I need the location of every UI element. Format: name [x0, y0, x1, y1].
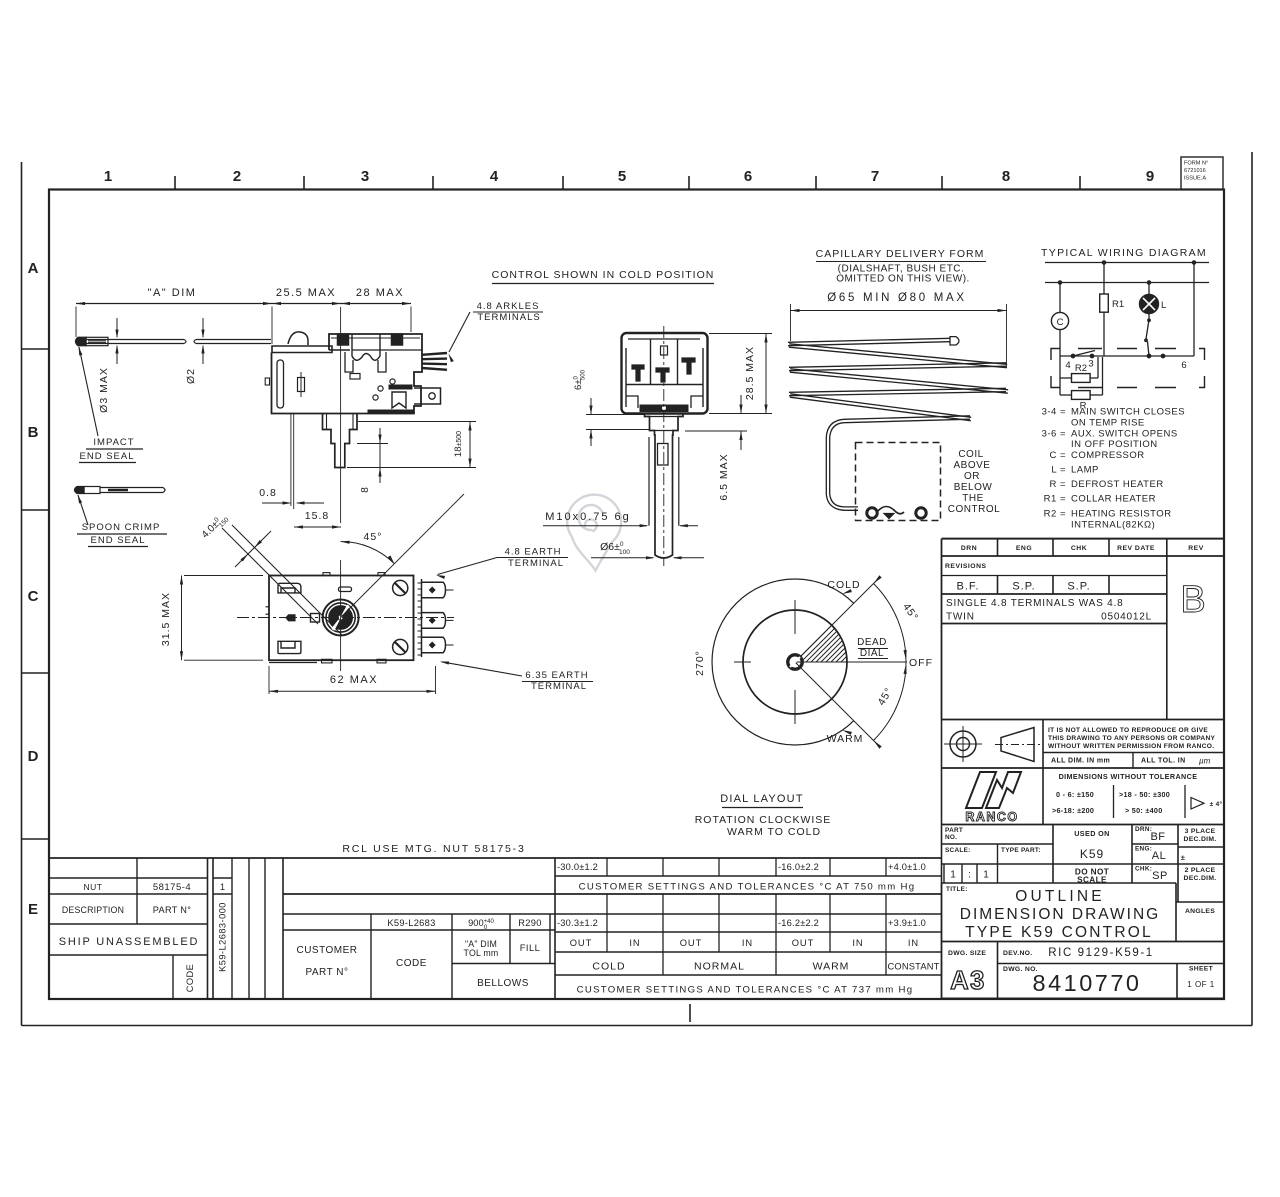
dim 8 — [350, 428, 388, 493]
svg-text:R =: R = — [1049, 479, 1066, 490]
svg-text:USED ON: USED ON — [1074, 829, 1110, 838]
dim 15.8 — [294, 510, 341, 529]
svg-text:ON TEMP RISE: ON TEMP RISE — [1071, 418, 1145, 429]
control boundary (dashed) — [1051, 349, 1205, 388]
svg-text:K59-L2683: K59-L2683 — [387, 918, 435, 928]
svg-text:3: 3 — [1088, 359, 1093, 370]
svg-text:NUT: NUT — [84, 882, 103, 892]
front view: small square — [311, 614, 320, 623]
svg-text:REV DATE: REV DATE — [1117, 545, 1155, 552]
sheet outer border — [22, 152, 1253, 1026]
svg-text:COMPRESSOR: COMPRESSOR — [1071, 450, 1145, 461]
svg-text:3-6 =: 3-6 = — [1042, 429, 1066, 440]
svg-text:TYPE PART:: TYPE PART: — [1001, 847, 1041, 854]
svg-text:IMPACT: IMPACT — [93, 437, 134, 448]
svg-text:END SEAL: END SEAL — [80, 451, 135, 462]
svg-text:0504012L: 0504012L — [1101, 612, 1152, 623]
svg-text:R1: R1 — [1112, 299, 1124, 310]
projection symbol block — [942, 720, 1225, 769]
svg-text:L: L — [1161, 300, 1166, 311]
svg-text:> 50: ±400: > 50: ±400 — [1125, 806, 1163, 815]
RANCO logo — [942, 768, 1044, 825]
svg-text:SHIP UNASSEMBLED: SHIP UNASSEMBLED — [59, 936, 199, 948]
capillary delivery form heading — [816, 248, 986, 285]
svg-text:DESCRIPTION: DESCRIPTION — [62, 905, 124, 915]
note COIL ABOVE OR BELOW THE CONTROL — [948, 449, 1000, 515]
svg-text:IN: IN — [852, 938, 863, 948]
svg-text:>6-18: ±200: >6-18: ±200 — [1052, 806, 1094, 815]
svg-text:DEC.DIM.: DEC.DIM. — [1184, 875, 1217, 882]
svg-text:8: 8 — [1002, 168, 1010, 185]
svg-text:OR: OR — [964, 471, 980, 482]
svg-text:TYPE K59 CONTROL: TYPE K59 CONTROL — [965, 924, 1153, 941]
control outline (dashed) — [856, 443, 941, 521]
side view: control body — [265, 332, 422, 414]
side view centerline — [340, 307, 342, 523]
svg-text:CUSTOMER SETTINGS AND TOLERANC: CUSTOMER SETTINGS AND TOLERANCES °C AT 7… — [579, 882, 916, 893]
dim dia3 MAX — [98, 318, 119, 413]
svg-text:± 4°: ± 4° — [1210, 800, 1223, 808]
dim 0.8 — [259, 487, 324, 505]
svg-text:K59: K59 — [1080, 847, 1104, 861]
svg-text:IN: IN — [908, 938, 919, 948]
svg-text:OFF: OFF — [909, 657, 933, 669]
svg-text:µm: µm — [1199, 757, 1211, 766]
middle view: spindle/shaft — [645, 414, 684, 559]
dial labels — [694, 579, 933, 745]
svg-text:+3.9±1.0: +3.9±1.0 — [888, 918, 926, 928]
svg-text:6: 6 — [1181, 360, 1186, 371]
svg-text:R290: R290 — [518, 918, 541, 928]
dim 6.5 MAX — [685, 395, 747, 501]
svg-text:IN OFF POSITION: IN OFF POSITION — [1071, 439, 1158, 450]
svg-text:28 MAX: 28 MAX — [356, 287, 404, 299]
svg-text:1 OF 1: 1 OF 1 — [1187, 980, 1215, 989]
svg-text:2: 2 — [233, 168, 241, 185]
watermark logo — [567, 495, 621, 571]
svg-text:ALL DIM. IN mm: ALL DIM. IN mm — [1051, 758, 1110, 765]
svg-text:Ø3 MAX: Ø3 MAX — [98, 367, 110, 413]
switch: aux contact — [1145, 314, 1151, 357]
svg-text:OUT: OUT — [792, 938, 815, 948]
sheet inner frame — [49, 190, 1224, 1000]
wire: second supply bus — [1045, 281, 1209, 285]
svg-text:FILL: FILL — [520, 943, 541, 953]
svg-text:SINGLE 4.8 TERMINALS WAS 4.8: SINGLE 4.8 TERMINALS WAS 4.8 — [946, 598, 1123, 609]
svg-text:6: 6 — [744, 168, 752, 185]
svg-text:"A" DIM: "A" DIM — [148, 287, 197, 299]
svg-text:-16.0±2.2: -16.0±2.2 — [778, 862, 819, 872]
svg-text:IN: IN — [629, 938, 640, 948]
svg-text:SP: SP — [1152, 870, 1168, 882]
svg-text:CONTROL SHOWN IN COLD POSITION: CONTROL SHOWN IN COLD POSITION — [492, 269, 715, 281]
title block — [942, 539, 1225, 999]
customer settings table — [49, 858, 942, 999]
wire: top supply bus — [1045, 261, 1209, 265]
svg-text:1: 1 — [983, 870, 989, 881]
wire: R1 to terminal 3 — [1103, 312, 1105, 356]
svg-text:CONTROL: CONTROL — [948, 504, 1000, 515]
svg-text:1: 1 — [104, 168, 112, 185]
svg-text:FORM N°: FORM N° — [1184, 161, 1208, 167]
svg-text:3: 3 — [361, 168, 369, 185]
row letters — [22, 260, 691, 1022]
svg-text:±: ± — [1181, 853, 1185, 862]
svg-text:CHK: CHK — [1071, 545, 1087, 552]
svg-text:THIS DRAWING TO ANY PERSONS OR: THIS DRAWING TO ANY PERSONS OR COMPANY — [1048, 735, 1216, 742]
svg-text:AL: AL — [1152, 850, 1166, 862]
svg-text:NORMAL: NORMAL — [694, 961, 745, 973]
svg-text:9: 9 — [1146, 168, 1154, 185]
svg-text:C =: C = — [1049, 450, 1066, 461]
svg-text:OUT: OUT — [570, 938, 593, 948]
svg-text:COLD: COLD — [827, 579, 860, 591]
front view: body — [269, 573, 414, 663]
svg-text:ANGLES: ANGLES — [1185, 908, 1215, 915]
wire: right branch to terminal 6 — [1193, 263, 1195, 357]
label 4.8 arkles terminals — [449, 301, 544, 362]
svg-text:8410770: 8410770 — [1033, 970, 1142, 996]
svg-text:TYPICAL WIRING DIAGRAM: TYPICAL WIRING DIAGRAM — [1041, 247, 1207, 259]
part row — [942, 825, 1225, 903]
wire: R1 branch — [1103, 263, 1105, 295]
svg-text:CUSTOMER SETTINGS AND TOLERANC: CUSTOMER SETTINGS AND TOLERANCES °C AT 7… — [577, 985, 914, 996]
capillary clamps at control — [867, 507, 926, 519]
svg-text:-30.3±1.2: -30.3±1.2 — [557, 918, 598, 928]
svg-text:CAPILLARY DELIVERY FORM: CAPILLARY DELIVERY FORM — [816, 248, 985, 260]
svg-text:6.35 EARTH: 6.35 EARTH — [525, 670, 588, 681]
svg-text:COLLAR HEATER: COLLAR HEATER — [1071, 494, 1156, 505]
svg-text:8: 8 — [360, 487, 371, 493]
lamp L — [1140, 295, 1167, 314]
svg-text:CODE: CODE — [396, 958, 427, 969]
svg-text:END SEAL: END SEAL — [91, 535, 146, 546]
svg-text:6.5 MAX: 6.5 MAX — [718, 453, 730, 500]
svg-text:PART N°: PART N° — [305, 967, 348, 978]
svg-text:ROTATION CLOCKWISE: ROTATION CLOCKWISE — [695, 814, 832, 826]
front view: terminal tabs — [422, 582, 454, 653]
svg-text:DIMENSIONS WITHOUT TOLERANCE: DIMENSIONS WITHOUT TOLERANCE — [1059, 772, 1198, 781]
front view: knob — [323, 600, 359, 636]
terminal labels — [1065, 359, 1186, 372]
svg-text:INTERNAL(82KΩ): INTERNAL(82KΩ) — [1071, 520, 1155, 531]
label SPOON CRIMP END SEAL — [77, 495, 167, 547]
svg-text:ENG: ENG — [1016, 545, 1032, 552]
resistor R defrost heater — [1060, 357, 1103, 412]
svg-text:C: C — [1057, 317, 1064, 328]
svg-text:Ø65 MIN Ø80 MAX: Ø65 MIN Ø80 MAX — [827, 292, 967, 304]
svg-text:5: 5 — [618, 168, 626, 185]
svg-text:DRN: DRN — [961, 545, 977, 552]
svg-text:DEV.NO.: DEV.NO. — [1003, 950, 1032, 957]
front view centerlines — [237, 560, 454, 671]
svg-text:BF: BF — [1150, 831, 1165, 843]
svg-text:4.8 EARTH: 4.8 EARTH — [505, 547, 562, 558]
dim 28.5 MAX — [709, 334, 772, 414]
dim A DIM / 25.5 MAX / 28 MAX — [76, 287, 411, 344]
dial dead band hatch — [795, 618, 900, 668]
svg-text:R1 =: R1 = — [1044, 494, 1066, 505]
svg-text:ISSUE:A: ISSUE:A — [1184, 176, 1206, 182]
svg-text:AUX. SWITCH OPENS: AUX. SWITCH OPENS — [1071, 429, 1178, 440]
svg-text:L =: L = — [1051, 465, 1066, 476]
dim dia6 +0/-100 — [591, 541, 704, 559]
svg-text:PART N°: PART N° — [153, 905, 191, 915]
side view: capillary tube — [86, 340, 271, 344]
svg-text:TERMINAL: TERMINAL — [531, 681, 587, 692]
svg-text:RANCO: RANCO — [965, 810, 1018, 824]
switch: main contact blade 4-3 — [1073, 351, 1095, 357]
svg-text:15.8: 15.8 — [305, 510, 329, 522]
svg-text:SCALE:: SCALE: — [945, 847, 971, 854]
compressor C — [1051, 312, 1068, 329]
svg-text:ENG:: ENG: — [1135, 846, 1152, 853]
wire: terminal line — [1060, 354, 1194, 358]
svg-text:WARM: WARM — [827, 733, 864, 745]
svg-text:B: B — [28, 424, 39, 441]
svg-text:>18 - 50: ±300: >18 - 50: ±300 — [1119, 790, 1170, 799]
svg-text:4.8 ARKLES: 4.8 ARKLES — [477, 301, 540, 312]
svg-text:B.F.: B.F. — [957, 581, 980, 593]
svg-text:LAMP: LAMP — [1071, 465, 1099, 476]
dim 6 +0/-500 — [573, 369, 650, 446]
side view: spoon crimp end seal — [75, 487, 166, 494]
svg-text:6721016: 6721016 — [1184, 168, 1206, 174]
wire: compressor branch — [1059, 283, 1061, 313]
svg-text:WARM: WARM — [813, 961, 850, 973]
label 6.35 EARTH TERMINAL — [440, 662, 593, 693]
wiring legend — [1042, 407, 1185, 531]
svg-text:TITLE:: TITLE: — [946, 886, 968, 893]
front view: screws — [393, 580, 408, 654]
svg-text:DEC.DIM.: DEC.DIM. — [1184, 836, 1217, 843]
middle view centerline — [663, 326, 665, 566]
svg-text:WITHOUT WRITTEN PERMISSION FRO: WITHOUT WRITTEN PERMISSION FROM RANCO. — [1048, 743, 1214, 750]
svg-text:SPOON CRIMP: SPOON CRIMP — [82, 522, 161, 533]
svg-text:3-4 =: 3-4 = — [1042, 407, 1066, 418]
svg-text:OMITTED ON THIS VIEW).: OMITTED ON THIS VIEW). — [836, 274, 970, 285]
svg-text:Ø2: Ø2 — [185, 368, 197, 384]
svg-text:28.5 MAX: 28.5 MAX — [744, 346, 756, 400]
svg-text:IN: IN — [742, 938, 753, 948]
svg-text:TOL mm: TOL mm — [464, 948, 499, 958]
side view: impact end seal — [76, 337, 151, 345]
svg-text:PART: PART — [945, 827, 963, 834]
dim M10x0.75 6g — [543, 511, 698, 527]
svg-text:0.8: 0.8 — [259, 487, 277, 499]
resistor R2 internal heater — [1060, 357, 1098, 382]
svg-text:S.P.: S.P. — [1012, 581, 1035, 593]
column numbers — [104, 168, 1154, 190]
svg-text:45°: 45° — [364, 531, 383, 543]
svg-text:IT IS NOT ALLOWED TO REPRODUCE: IT IS NOT ALLOWED TO REPRODUCE OR GIVE — [1048, 727, 1208, 734]
svg-text:-30.0±1.2: -30.0±1.2 — [557, 862, 598, 872]
svg-text:DIAL LAYOUT: DIAL LAYOUT — [720, 793, 804, 805]
svg-text:REV: REV — [1188, 545, 1203, 552]
dim 45 deg — [341, 494, 464, 618]
svg-text:DIAL: DIAL — [860, 648, 884, 659]
front view: mounting slots — [278, 583, 301, 653]
svg-text:TERMINALS: TERMINALS — [477, 312, 540, 323]
dim 4.0 +0/-150 — [199, 511, 342, 635]
svg-text:TWIN: TWIN — [946, 612, 975, 623]
svg-text:+4.0±1.0: +4.0±1.0 — [888, 862, 926, 872]
svg-text:4: 4 — [1065, 360, 1070, 371]
svg-text:HEATING RESISTOR: HEATING RESISTOR — [1071, 509, 1172, 520]
svg-text:CODE: CODE — [185, 964, 195, 993]
svg-text:S.P.: S.P. — [1067, 581, 1090, 593]
side view: spindle — [323, 414, 358, 468]
svg-text:58175-4: 58175-4 — [153, 882, 191, 893]
dial 45 deg arcs — [874, 575, 921, 748]
svg-text:R2: R2 — [1075, 363, 1087, 374]
svg-text:THE: THE — [962, 493, 984, 504]
svg-text:4: 4 — [490, 168, 499, 185]
svg-text::: : — [968, 870, 971, 881]
svg-text:62 MAX: 62 MAX — [330, 674, 378, 686]
svg-text:RCL USE MTG. NUT 58175-3: RCL USE MTG. NUT 58175-3 — [342, 843, 525, 855]
svg-text:25.5 MAX: 25.5 MAX — [276, 287, 336, 299]
wire: left drop to heaters — [1059, 356, 1061, 395]
svg-text:A: A — [28, 260, 39, 277]
svg-text:A3: A3 — [950, 967, 986, 995]
side view: 4.8 arkles terminals — [422, 353, 447, 370]
svg-text:SHEET: SHEET — [1189, 966, 1214, 973]
capillary coil — [788, 337, 1008, 511]
svg-text:COLD: COLD — [592, 961, 625, 973]
svg-text:ALL TOL. IN: ALL TOL. IN — [1141, 758, 1186, 765]
svg-text:COIL: COIL — [958, 449, 983, 460]
svg-text:3 PLACE: 3 PLACE — [1185, 828, 1216, 835]
front view: left pin — [266, 607, 296, 621]
svg-text:31.5 MAX: 31.5 MAX — [160, 592, 172, 646]
svg-text:CUSTOMER: CUSTOMER — [296, 945, 357, 956]
svg-text:OUTLINE: OUTLINE — [1015, 888, 1105, 905]
dial layout drawing — [712, 577, 907, 747]
svg-text:REVISIONS: REVISIONS — [945, 563, 987, 570]
svg-text:ABOVE: ABOVE — [954, 460, 991, 471]
side view: 6.35 terminal — [414, 388, 441, 404]
svg-text:E: E — [28, 901, 38, 918]
svg-text:DWG. SIZE: DWG. SIZE — [948, 950, 986, 957]
svg-text:MAIN SWITCH CLOSES: MAIN SWITCH CLOSES — [1071, 407, 1185, 418]
svg-text:DEAD: DEAD — [857, 637, 887, 648]
revision table — [942, 539, 1225, 720]
dim 31.5 MAX — [160, 576, 263, 661]
svg-text:D: D — [28, 748, 39, 765]
svg-text:K59-L2683-000: K59-L2683-000 — [218, 902, 228, 972]
front view: terminal strip — [414, 579, 422, 657]
resistor R1 — [1100, 294, 1124, 312]
dial layout caption — [695, 793, 832, 838]
front view: top slot — [339, 587, 352, 592]
svg-text:OUT: OUT — [680, 938, 703, 948]
svg-text:TERMINAL: TERMINAL — [508, 558, 564, 569]
svg-text:BELLOWS: BELLOWS — [477, 978, 529, 989]
tolerance table — [1052, 772, 1222, 818]
svg-text:WARM TO COLD: WARM TO COLD — [727, 826, 821, 838]
svg-text:BELOW: BELOW — [954, 482, 993, 493]
svg-text:DEFROST HEATER: DEFROST HEATER — [1071, 479, 1164, 490]
middle view: body — [622, 333, 708, 414]
svg-text:270°: 270° — [694, 650, 706, 676]
wire: lamp branch — [1148, 283, 1150, 295]
dim 18 +-500 — [347, 422, 476, 468]
svg-text:7: 7 — [871, 168, 879, 185]
extension line 0.8 — [293, 414, 295, 509]
svg-text:RIC 9129-K59-1: RIC 9129-K59-1 — [1048, 947, 1154, 959]
svg-text:CHK:: CHK: — [1135, 866, 1152, 873]
svg-text:DIMENSION DRAWING: DIMENSION DRAWING — [960, 906, 1160, 923]
svg-text:-16.2±2.2: -16.2±2.2 — [778, 918, 819, 928]
svg-text:B: B — [1180, 579, 1205, 621]
svg-text:NO.: NO. — [945, 834, 957, 841]
svg-text:C: C — [28, 588, 39, 605]
copyright note — [1043, 727, 1224, 768]
dim dia2 — [185, 318, 205, 384]
heading CONTROL SHOWN IN COLD POSITION — [492, 269, 715, 284]
svg-text:R2 =: R2 = — [1044, 509, 1066, 520]
dim 62 MAX — [269, 666, 436, 694]
dial center — [788, 655, 802, 669]
svg-text:0 - 6: ±150: 0 - 6: ±150 — [1056, 790, 1094, 799]
svg-text:2 PLACE: 2 PLACE — [1185, 867, 1216, 874]
svg-text:M10x0.75 6g: M10x0.75 6g — [545, 511, 631, 523]
form number box — [1181, 157, 1223, 190]
label IMPACT END SEAL — [79, 347, 144, 463]
dim dia65 MIN dia80 MAX — [791, 292, 1007, 368]
label 4.8 EARTH TERMINAL — [436, 547, 568, 580]
svg-text:CONSTANT: CONSTANT — [887, 962, 939, 972]
svg-text:1: 1 — [220, 882, 225, 892]
svg-text:1: 1 — [950, 870, 956, 881]
wire: C to terminal 4 — [1059, 330, 1061, 356]
